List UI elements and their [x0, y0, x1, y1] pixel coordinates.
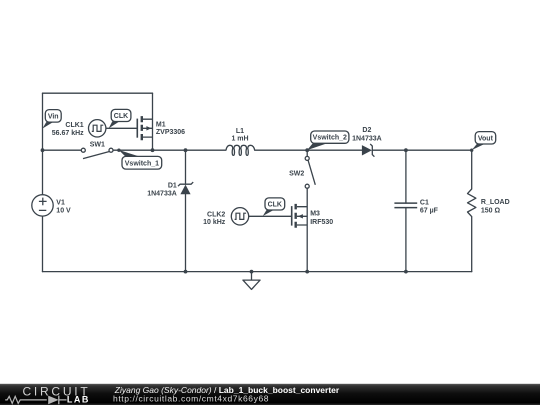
- node junction ground: [250, 270, 254, 274]
- wire R_LOAD branch upper: [471, 150, 473, 189]
- CircuitLab logo waveform: [5, 396, 47, 403]
- inductor L1: [226, 145, 255, 155]
- voltage source V1: [32, 195, 53, 216]
- wire left vertical lower (V1 to ground rail): [42, 216, 44, 272]
- svg-text:67 µF: 67 µF: [420, 207, 439, 214]
- svg-text:IRF530: IRF530: [310, 219, 333, 226]
- wire left vertical upper (Vin net): [42, 93, 44, 195]
- ground: [243, 272, 260, 290]
- svg-text:M3: M3: [310, 211, 320, 218]
- svg-text:CLK: CLK: [114, 113, 128, 120]
- svg-text:1 mH: 1 mH: [231, 136, 248, 143]
- wire M1 source-drain vertical: [152, 93, 154, 150]
- clock source CLK2: [231, 208, 248, 225]
- svg-text:SW2: SW2: [289, 171, 304, 178]
- wire D1 branch lower: [185, 194, 187, 271]
- svg-text:10 V: 10 V: [56, 207, 71, 214]
- node junction V1/SW1: [41, 148, 45, 152]
- svg-text:56.67 kHz: 56.67 kHz: [52, 130, 84, 137]
- node junction Vout corner: [470, 149, 473, 152]
- node junction M3 source rail: [305, 270, 309, 274]
- wire SW2 to M3 drain and M3 source to ground rail: [306, 188, 308, 271]
- transistor M1 (PMOS ZVP3306): [137, 116, 152, 140]
- transistor M3 (NMOS IRF530): [292, 204, 308, 228]
- svg-text:10 kHz: 10 kHz: [203, 219, 226, 226]
- footer bar: [0, 384, 540, 405]
- svg-text:V1: V1: [56, 200, 65, 207]
- wire CLK2 to M3 gate: [249, 215, 292, 217]
- wire C1 branch lower: [405, 208, 407, 272]
- node label Vin: [43, 110, 62, 129]
- CircuitLab logo diode: [48, 396, 58, 405]
- svg-text:M1: M1: [156, 122, 166, 129]
- svg-text:SW1: SW1: [90, 141, 105, 148]
- svg-text:L1: L1: [236, 128, 244, 135]
- node junction D1 bottom: [184, 270, 188, 274]
- wire D1 branch upper: [185, 150, 187, 184]
- svg-text:Vswitch_2: Vswitch_2: [313, 135, 347, 142]
- svg-text:1N4733A: 1N4733A: [352, 135, 382, 142]
- svg-text:Vout: Vout: [478, 135, 494, 142]
- wire main segment L1 to D2: [255, 149, 362, 151]
- resistor R_LOAD: [468, 189, 476, 217]
- wire SW2 upper stub: [306, 150, 308, 156]
- node label CLK (at M3 gate): [263, 198, 285, 216]
- node junction M1 drain: [151, 148, 155, 152]
- node junction Vswitch_1 label tip: [117, 149, 120, 152]
- svg-text:ZVP3306: ZVP3306: [156, 129, 185, 136]
- wire main segment V1 junction to SW1: [43, 149, 82, 151]
- svg-text:CLK2: CLK2: [207, 211, 225, 218]
- wire main segment SW1 to L1 (node Vswitch_1): [113, 149, 226, 151]
- node label CLK (at M1 gate): [109, 109, 131, 128]
- svg-text:Vswitch_1: Vswitch_1: [125, 160, 159, 167]
- svg-text:CLK1: CLK1: [65, 122, 83, 129]
- node junction C1 top: [404, 148, 408, 152]
- svg-text:Vin: Vin: [48, 114, 59, 121]
- node junction D1 top: [184, 148, 188, 152]
- svg-text:1N4733A: 1N4733A: [147, 190, 177, 197]
- wire top rail: [43, 92, 153, 94]
- wire R_LOAD branch lower: [471, 217, 473, 272]
- clock source CLK1: [89, 120, 106, 137]
- node junction C1 bottom: [404, 270, 408, 274]
- diode D1 (zener 1N4733A): [180, 185, 190, 195]
- node label Vswitch_1: [119, 150, 162, 169]
- switch SW1: [81, 148, 113, 158]
- wire main segment D2 to Vout corner: [372, 149, 471, 151]
- node label Vswitch_2: [307, 131, 349, 150]
- switch SW2: [305, 156, 315, 188]
- wire CLK1 to M1 gate: [106, 127, 137, 129]
- svg-text:CLK: CLK: [268, 202, 282, 209]
- node label Vout: [472, 132, 496, 150]
- svg-text:D2: D2: [362, 127, 371, 134]
- wire bottom ground rail: [43, 271, 472, 273]
- svg-text:R_LOAD: R_LOAD: [481, 199, 510, 206]
- svg-text:LAB: LAB: [67, 394, 90, 404]
- wire C1 branch upper: [405, 150, 407, 203]
- svg-text:D1: D1: [168, 182, 177, 189]
- node junction SW2 top (Vswitch_2): [305, 148, 309, 152]
- svg-text:http://circuitlab.com/cmt4xd7k: http://circuitlab.com/cmt4xd7k66y68: [113, 393, 269, 403]
- svg-text:150 Ω: 150 Ω: [481, 208, 501, 215]
- diode D2 (zener 1N4733A): [362, 145, 372, 155]
- svg-text:C1: C1: [420, 199, 429, 206]
- capacitor C1: [394, 203, 417, 208]
